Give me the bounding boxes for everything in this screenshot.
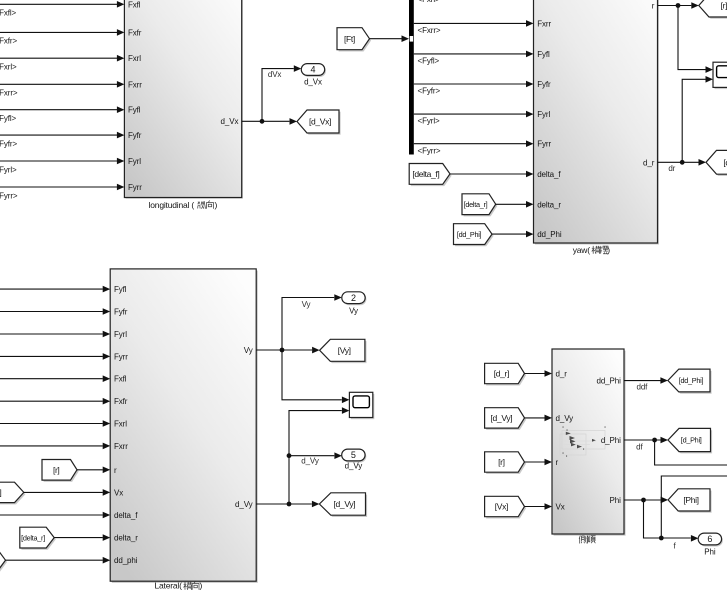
wire [r] to Lateral: [77, 467, 110, 474]
bus input port marker: [410, 36, 413, 42]
wire dd_Phi output to goto: [624, 377, 668, 384]
wire Fxrl into Lateral: [0, 420, 110, 427]
svg-text:<Fyrr>: <Fyrr>: [418, 146, 441, 155]
svg-text:[d_Vy]: [d_Vy]: [334, 499, 356, 509]
svg-text:d_Vy: d_Vy: [301, 457, 319, 466]
outport 5 d_Vy: [342, 449, 367, 470]
svg-text:<Fyrl>: <Fyrl>: [0, 165, 17, 174]
svg-text:<Fxrl>: <Fxrl>: [418, 0, 441, 4]
subsystem 侧倾 thumbnail icon: [560, 431, 605, 456]
wire Fxrr into Lateral: [0, 443, 110, 450]
svg-text:6: 6: [707, 534, 712, 544]
svg-text:dd_phi: dd_phi: [114, 556, 138, 565]
svg-text:Fyrr: Fyrr: [537, 140, 551, 149]
outport 2 Vy: [342, 292, 367, 316]
wire bus signal Fyfl to yaw: [414, 51, 534, 66]
svg-text:d_r: d_r: [556, 370, 568, 379]
svg-text:Vy: Vy: [244, 346, 253, 355]
svg-text:<Fxrr>: <Fxrr>: [0, 89, 18, 98]
from tag [delta_r] (Lateral): [20, 527, 56, 550]
wire <Fyrl> into longitudinal: [0, 158, 124, 175]
svg-text:Fyrr: Fyrr: [114, 352, 128, 361]
junction on Phi wire: [641, 498, 646, 503]
svg-text:[d_Vy]: [d_Vy]: [491, 413, 513, 423]
svg-text:Vx: Vx: [556, 503, 565, 512]
svg-text:delta_r: delta_r: [537, 200, 561, 209]
svg-text:Phi: Phi: [704, 548, 716, 557]
wire r output to goto [r]: [658, 2, 699, 9]
svg-text:dd_Phi: dd_Phi: [537, 230, 562, 239]
from tag dd_phi (clipped): [0, 550, 7, 572]
wire d_r to scope input 2: [682, 76, 713, 162]
svg-text:r: r: [556, 458, 559, 467]
wire <Fyrr> into longitudinal: [0, 184, 124, 201]
svg-text:delta_f: delta_f: [114, 511, 138, 520]
junction on d_Vy wire: [287, 502, 292, 507]
svg-text:<Fyfr>: <Fyfr>: [418, 87, 441, 96]
svg-text:Fxrl: Fxrl: [128, 54, 141, 63]
svg-text:Fxfl: Fxfl: [114, 375, 127, 384]
goto [r] (clipped): [699, 0, 727, 19]
svg-text:Vx: Vx: [114, 488, 123, 497]
from tag [Vx] (clipped): [0, 482, 25, 504]
svg-text:d_r: d_r: [643, 158, 655, 167]
wire <Fyfr> into longitudinal: [0, 132, 124, 149]
wire dd_phi to Lateral: [6, 557, 111, 564]
goto [Vy]: [320, 339, 367, 363]
svg-text:[dd_Phi]: [dd_Phi]: [679, 376, 704, 385]
svg-text:d_Vy: d_Vy: [235, 500, 253, 509]
junction on d_Phi wire: [652, 438, 657, 443]
goto [dd_Phi]: [668, 369, 712, 394]
svg-text:[delta_f]: [delta_f]: [412, 169, 439, 179]
svg-text:d_Vy: d_Vy: [556, 414, 574, 423]
wire Phi branch exiting right: [661, 476, 727, 538]
svg-text:Fyfr: Fyfr: [114, 308, 128, 317]
svg-text:<Fxfr>: <Fxfr>: [0, 37, 17, 46]
wire Vy junction to goto [Vy]: [282, 347, 320, 354]
svg-text:Fxrr: Fxrr: [114, 442, 128, 451]
wire [d_Vy] to roll block: [525, 415, 553, 422]
svg-text:ddf: ddf: [636, 382, 648, 391]
subsystem Lateral (block): [110, 269, 258, 583]
svg-text:Fyrl: Fyrl: [128, 157, 141, 166]
wire [delta_r] to Lateral: [54, 534, 110, 541]
junction on d_r wire: [680, 160, 685, 165]
svg-text:): ): [215, 200, 218, 210]
svg-text:[Vx]: [Vx]: [0, 488, 1, 498]
wire [dd_Phi] to yaw: [492, 231, 534, 238]
svg-text:Fxfl: Fxfl: [128, 0, 141, 9]
outport 6 Phi: [698, 533, 723, 557]
svg-text:[Phi]: [Phi]: [683, 495, 698, 505]
svg-text:Fyfl: Fyfl: [114, 285, 127, 294]
svg-text:Fxfr: Fxfr: [114, 397, 128, 406]
svg-text:[delta_r]: [delta_r]: [464, 200, 488, 209]
svg-text:<Fyfr>: <Fyfr>: [0, 139, 17, 148]
from tag [d_r] (roll): [485, 363, 526, 385]
wire Vy junction down to scope input 1: [282, 350, 349, 403]
svg-text:[r]: [r]: [53, 465, 60, 475]
svg-text:yaw(: yaw(: [573, 245, 591, 255]
wire d_Vy up to scope input 2: [289, 407, 349, 504]
subsystem yaw (block): [534, 0, 660, 245]
svg-text:Fyfl: Fyfl: [537, 50, 550, 59]
junction on d_Vy vertical: [287, 453, 292, 458]
svg-text:[d_r]: [d_r]: [494, 369, 509, 379]
wire Fyfr into Lateral: [0, 308, 110, 315]
from tag [d_Vy] (roll): [485, 408, 526, 430]
title 侧倾: [579, 536, 596, 544]
svg-text:[Vx]: [Vx]: [495, 502, 508, 512]
wire <Fxfr> into longitudinal: [0, 29, 124, 46]
junction on r wire: [676, 3, 681, 8]
wire d_r output: [658, 159, 707, 166]
svg-text:2: 2: [351, 293, 356, 303]
svg-text:<Fyrr>: <Fyrr>: [0, 191, 18, 200]
from tag [delta_f]: [409, 164, 451, 187]
wire [d_r] to roll block: [525, 370, 553, 377]
svg-text:Fyfr: Fyfr: [128, 131, 142, 140]
svg-text:Phi: Phi: [610, 496, 622, 505]
svg-text:Fxrr: Fxrr: [537, 19, 551, 28]
wire <Fxrl> into longitudinal: [0, 55, 124, 72]
wire Fxfr into Lateral: [0, 398, 110, 405]
wire Phi down to outport 6: [644, 500, 699, 542]
svg-text:longitudinal (: longitudinal (: [149, 200, 195, 210]
goto [Phi]: [668, 489, 712, 513]
wire [delta_f] to yaw: [450, 171, 534, 178]
svg-text:<Fyfl>: <Fyfl>: [0, 114, 17, 123]
wire <Fyfl> into longitudinal: [0, 106, 124, 123]
svg-text:[r]: [r]: [498, 457, 505, 467]
svg-text:dr: dr: [668, 164, 675, 173]
svg-text:d_Vy: d_Vy: [345, 461, 363, 470]
wire Vy output to junction: [256, 294, 342, 350]
junction on d_Vx wire: [260, 119, 265, 124]
wire Fyrr into Lateral: [0, 353, 110, 360]
from tag [Vx] (roll): [485, 496, 526, 518]
svg-text:): ): [200, 581, 203, 591]
svg-text:[r]: [r]: [721, 1, 727, 11]
subsystem longitudinal (block): [124, 0, 242, 199]
wire d_Phi branch exiting right: [655, 440, 727, 465]
wire [Ft] to bus selector: [370, 35, 410, 42]
svg-text:delta_f: delta_f: [537, 170, 561, 179]
junction on Phi-outport wire: [659, 536, 664, 541]
wire [Vx] to Lateral: [24, 489, 110, 496]
svg-text:Fyrl: Fyrl: [537, 110, 550, 119]
wire Phi output to goto: [624, 497, 668, 504]
svg-text:[delta_r]: [delta_r]: [21, 533, 45, 542]
svg-text:5: 5: [351, 450, 356, 460]
title yaw(横摆): [573, 245, 611, 255]
scope (bottom left): [349, 392, 374, 419]
bus selector bar: [409, 0, 414, 155]
svg-text:d_Vx: d_Vx: [304, 78, 322, 87]
wire bus signal Fyfr to yaw: [414, 81, 534, 96]
wire junction to goto [d_Vx]: [262, 118, 297, 125]
wire d_Vx output to junction: [242, 65, 302, 121]
svg-text:[d_Vx]: [d_Vx]: [309, 117, 331, 127]
svg-text:4: 4: [310, 65, 315, 75]
svg-text:<Fxrr>: <Fxrr>: [418, 26, 441, 35]
svg-text:Fxfr: Fxfr: [128, 28, 142, 37]
wire to outport 5: [289, 452, 342, 459]
svg-text:Fyfr: Fyfr: [537, 80, 551, 89]
svg-text:Fxrr: Fxrr: [128, 80, 142, 89]
svg-text:): ): [607, 245, 610, 255]
svg-text:Vy: Vy: [302, 300, 311, 309]
svg-text:d_Vx: d_Vx: [221, 117, 239, 126]
from tag [dd_Phi]: [454, 224, 494, 247]
svg-text:Vy: Vy: [349, 306, 358, 315]
wire [delta_r] to yaw: [496, 201, 534, 208]
scope (top right, clipped): [713, 62, 727, 89]
svg-text:<Fyrl>: <Fyrl>: [418, 117, 441, 126]
wire <Fxfl> into longitudinal: [0, 1, 124, 18]
subsystem 侧倾 roll (block): [552, 349, 626, 536]
svg-text:[dd_Phi]: [dd_Phi]: [457, 230, 482, 239]
svg-text:r: r: [652, 2, 655, 11]
svg-text:Fxrl: Fxrl: [114, 420, 127, 429]
goto [d_Phi]: [668, 428, 712, 453]
svg-text:[Ft]: [Ft]: [344, 34, 355, 44]
from tag [Ft]: [337, 28, 371, 52]
from tag [r] (Lateral): [42, 460, 79, 482]
svg-text:<Fxrl>: <Fxrl>: [0, 63, 17, 72]
svg-text:d_Phi: d_Phi: [601, 436, 621, 445]
goto [d_r] (clipped): [706, 150, 727, 176]
svg-text:delta_r: delta_r: [114, 534, 138, 543]
title Lateral(横向): [155, 581, 203, 591]
svg-text:Lateral(: Lateral(: [155, 581, 183, 591]
svg-text:dVx: dVx: [268, 70, 282, 79]
svg-text:df: df: [636, 442, 643, 451]
wire [Vx] to roll block: [525, 503, 553, 510]
wire r to scope input 1: [678, 6, 713, 73]
wire bus signal Fxrr to yaw: [414, 20, 534, 35]
wire bus signal Fyrl to yaw: [414, 111, 534, 126]
svg-text:Fyfl: Fyfl: [128, 106, 141, 115]
wire delta_f into Lateral: [0, 512, 110, 519]
title longitudinal（纵向）: [149, 200, 218, 210]
goto [d_Vy]: [319, 493, 367, 517]
svg-text:dd_Phi: dd_Phi: [596, 377, 621, 386]
goto [d_Vx]: [297, 110, 341, 135]
wire <Fxrr> into longitudinal: [0, 81, 124, 98]
svg-text:<Fyfl>: <Fyfl>: [418, 57, 440, 66]
wire Fyrl into Lateral: [0, 331, 110, 338]
svg-text:Fyrl: Fyrl: [114, 330, 127, 339]
svg-text:r: r: [114, 466, 117, 475]
wire Fyfl into Lateral: [0, 286, 110, 293]
junction on Vy wire: [280, 348, 285, 353]
svg-text:[Vy]: [Vy]: [338, 345, 351, 355]
svg-text:Fyrr: Fyrr: [128, 183, 142, 192]
wire [r] to roll block: [525, 459, 553, 466]
svg-text:[d_Phi]: [d_Phi]: [681, 436, 702, 445]
from tag [delta_r]: [462, 194, 497, 217]
wire Fxfl into Lateral: [0, 375, 110, 382]
svg-text:<Fxfl>: <Fxfl>: [0, 9, 17, 18]
wire d_Phi output to goto: [624, 437, 668, 444]
from tag [r] (roll): [485, 452, 526, 474]
outport 4 d_Vx: [301, 64, 326, 87]
wire bus signal Fyrr to yaw: [414, 140, 534, 155]
wire d_Vy output: [256, 501, 319, 508]
svg-text:[d_r]: [d_r]: [723, 157, 727, 167]
